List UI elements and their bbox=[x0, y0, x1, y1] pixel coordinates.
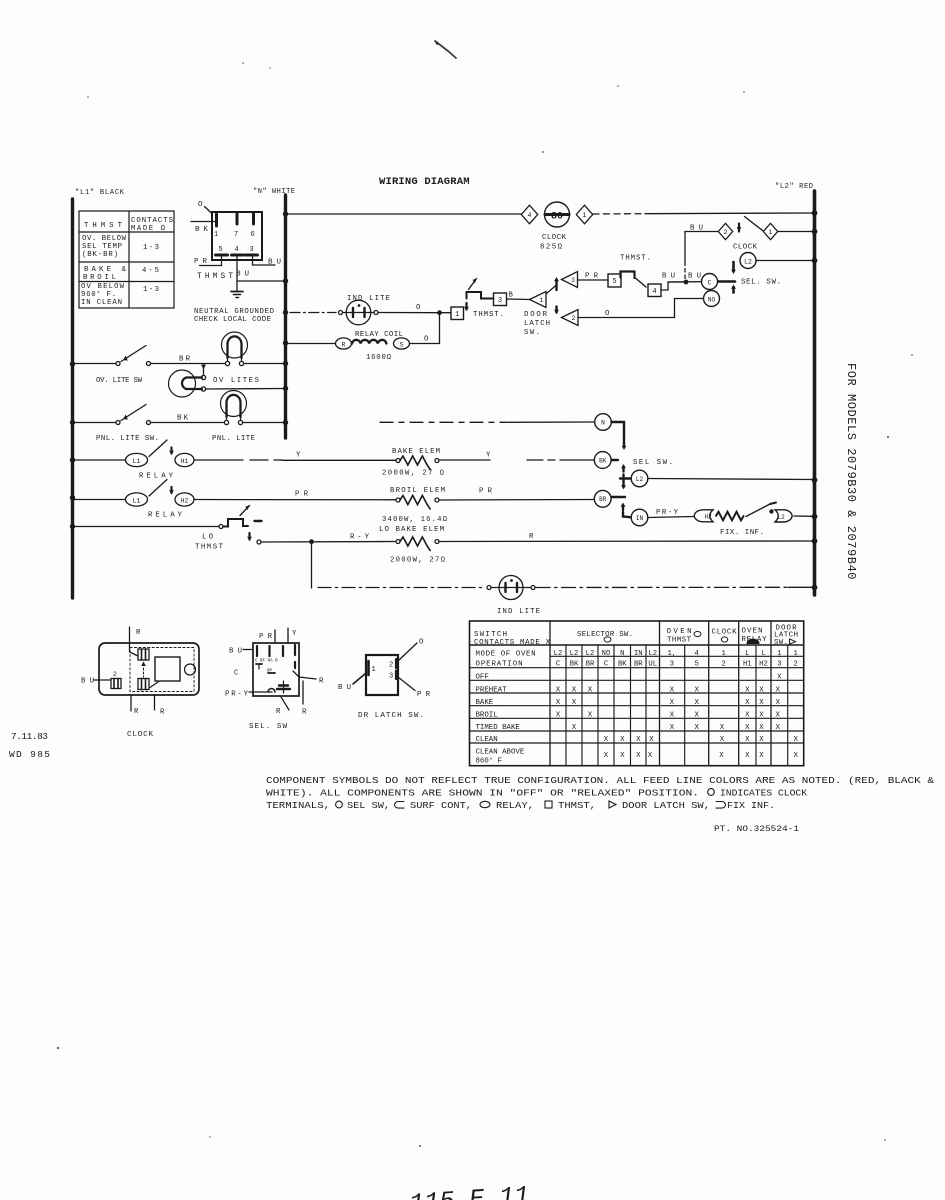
svg-text:BAKE &: BAKE & bbox=[84, 266, 127, 274]
svg-text:BROIL: BROIL bbox=[476, 711, 498, 719]
svg-text:IN: IN bbox=[636, 515, 644, 522]
svg-text:1,: 1, bbox=[667, 650, 676, 658]
svg-text:BAKE: BAKE bbox=[476, 699, 494, 707]
svg-text:X: X bbox=[588, 711, 593, 719]
svg-text:"N" WHITE: "N" WHITE bbox=[253, 188, 295, 196]
svg-text:4: 4 bbox=[695, 650, 699, 658]
svg-text:THMST: THMST bbox=[667, 637, 692, 645]
svg-text:TERMINALS,: TERMINALS, bbox=[266, 801, 330, 811]
svg-text:2: 2 bbox=[389, 662, 393, 670]
wire R-Y to lo bake elem bbox=[261, 541, 396, 544]
svg-text:7.11.83: 7.11.83 bbox=[11, 731, 48, 742]
table THMST contacts made bbox=[79, 211, 174, 308]
svg-text:X: X bbox=[620, 736, 625, 744]
svg-text:L2: L2 bbox=[744, 258, 752, 265]
svg-text:1: 1 bbox=[777, 650, 781, 658]
svg-text:X: X bbox=[775, 711, 780, 719]
svg-text:R-Y: R-Y bbox=[350, 534, 370, 542]
svg-text:CLEAN: CLEAN bbox=[476, 736, 498, 744]
internal contacts bbox=[256, 646, 258, 656]
svg-text:1: 1 bbox=[214, 231, 218, 239]
clock motor box bbox=[155, 657, 180, 681]
svg-text:2: 2 bbox=[724, 229, 728, 236]
svg-text:1-3: 1-3 bbox=[143, 286, 159, 294]
svg-text:PR: PR bbox=[259, 633, 273, 641]
svg-text:3: 3 bbox=[670, 661, 674, 669]
wire clock to L2 bus bbox=[593, 213, 645, 215]
svg-text:BR: BR bbox=[586, 661, 595, 669]
svg-text:3: 3 bbox=[498, 297, 502, 305]
door latch sw component drawing bbox=[366, 655, 398, 695]
svg-text:X: X bbox=[556, 711, 561, 719]
svg-text:2000W, 27 Ω: 2000W, 27 Ω bbox=[382, 470, 445, 478]
svg-text:CLEAN ABOVE: CLEAN ABOVE bbox=[476, 749, 525, 757]
wire junction down to relay coil bbox=[439, 313, 441, 344]
svg-text:X: X bbox=[745, 699, 750, 707]
svg-text:BK: BK bbox=[177, 415, 189, 423]
lamp IND LITE (bottom) bbox=[318, 587, 486, 589]
svg-text:X: X bbox=[588, 686, 593, 694]
svg-text:MODE OF OVEN: MODE OF OVEN bbox=[476, 651, 536, 659]
svg-text:CHECK LOCAL CODE: CHECK LOCAL CODE bbox=[194, 316, 271, 324]
svg-text:4: 4 bbox=[235, 246, 239, 254]
wire to oven lamp bbox=[151, 363, 228, 365]
svg-text:H2: H2 bbox=[705, 514, 713, 521]
svg-text:X: X bbox=[719, 752, 724, 760]
svg-text:IND LITE: IND LITE bbox=[347, 295, 390, 303]
clock terminal diamond 1 bbox=[576, 205, 592, 224]
contact box 1 bbox=[451, 307, 464, 320]
sel sw terminal BK bbox=[594, 452, 611, 469]
svg-text:THMST,: THMST, bbox=[558, 801, 596, 811]
svg-text:825Ω: 825Ω bbox=[540, 244, 563, 252]
wire R bottom right bbox=[302, 681, 304, 704]
clock terminal 3 bbox=[138, 679, 149, 690]
switch PNL LITE SW bbox=[74, 422, 116, 424]
svg-text:X: X bbox=[670, 724, 675, 732]
connector block THMST (pins 1 7 6 5 4 3) bbox=[212, 212, 262, 260]
svg-text:IN CLEAN: IN CLEAN bbox=[81, 299, 122, 307]
svg-text:TIMED BAKE: TIMED BAKE bbox=[476, 724, 521, 732]
svg-text:R: R bbox=[319, 678, 324, 686]
resistor LO BAKE ELEM 2000W 27 ohm bbox=[396, 540, 400, 544]
bus N bbox=[284, 195, 287, 438]
svg-text:O: O bbox=[416, 304, 421, 312]
lamp OV LITE (top) bbox=[222, 332, 248, 358]
svg-text:WIRING DIAGRAM: WIRING DIAGRAM bbox=[379, 176, 470, 188]
svg-text:S: S bbox=[400, 341, 404, 348]
svg-text:PR-Y: PR-Y bbox=[656, 509, 679, 517]
svg-text:3: 3 bbox=[250, 246, 254, 254]
svg-text:SW.: SW. bbox=[774, 639, 788, 647]
svg-text:CLOCK: CLOCK bbox=[127, 731, 153, 739]
svg-text:RELAY COIL: RELAY COIL bbox=[355, 331, 403, 339]
svg-text:960° F.: 960° F. bbox=[81, 290, 116, 299]
svg-text:"L2" RED: "L2" RED bbox=[775, 183, 813, 191]
svg-text:X: X bbox=[793, 736, 798, 744]
pin 7 bbox=[236, 214, 239, 224]
svg-text:R: R bbox=[529, 533, 534, 541]
wire N bus to clock bbox=[287, 213, 522, 215]
svg-text:115 E 11: 115 E 11 bbox=[409, 1181, 531, 1200]
wire R bottom right bbox=[154, 695, 156, 710]
svg-text:THMST: THMST bbox=[195, 544, 224, 552]
svg-text:4-5: 4-5 bbox=[142, 267, 159, 275]
svg-text:LO BAKE ELEM: LO BAKE ELEM bbox=[379, 526, 444, 534]
svg-text:80: 80 bbox=[551, 212, 563, 223]
svg-text:X: X bbox=[572, 686, 577, 694]
wire PR to broil elem bbox=[194, 499, 396, 501]
svg-text:SURF CONT,: SURF CONT, bbox=[410, 801, 472, 811]
sel sw component drawing bbox=[253, 643, 299, 696]
svg-text:L2: L2 bbox=[554, 650, 563, 658]
svg-text:O: O bbox=[419, 639, 424, 647]
door latch contact 2 (triangle) bbox=[555, 307, 557, 313]
svg-text:RELAY: RELAY bbox=[148, 512, 183, 520]
svg-text:CONTACTS: CONTACTS bbox=[131, 217, 174, 225]
svg-text:L1: L1 bbox=[133, 458, 141, 465]
svg-text:PR-Y: PR-Y bbox=[225, 691, 249, 699]
wire junction down to ind lite row bbox=[311, 542, 313, 588]
svg-text:X: X bbox=[745, 711, 750, 719]
svg-text:CONTACTS MADE X: CONTACTS MADE X bbox=[474, 639, 551, 647]
svg-text:OVEN: OVEN bbox=[742, 628, 763, 636]
svg-text:L: L bbox=[745, 650, 749, 658]
contact arrow at box1 bbox=[465, 303, 467, 310]
svg-text:X: X bbox=[720, 736, 725, 744]
resistor BROIL ELEM 3400W 16.4 ohm bbox=[396, 498, 400, 502]
svg-text:B: B bbox=[509, 292, 514, 300]
svg-text:L2: L2 bbox=[636, 476, 644, 483]
thmst contact box 5 bbox=[608, 274, 621, 287]
clock terminal 1 bbox=[138, 649, 149, 660]
svg-text:R: R bbox=[136, 629, 141, 637]
surface contact L2 (fix inf) bbox=[775, 510, 792, 522]
svg-text:RELAY: RELAY bbox=[139, 473, 174, 481]
svg-text:L2: L2 bbox=[648, 650, 657, 658]
junction dots on buses bbox=[70, 361, 75, 366]
svg-text:PR: PR bbox=[417, 691, 431, 699]
svg-text:R: R bbox=[276, 708, 281, 716]
svg-text:O: O bbox=[424, 336, 429, 344]
clock switch blade bbox=[738, 224, 740, 232]
svg-text:X: X bbox=[759, 736, 764, 744]
svg-text:N: N bbox=[601, 419, 605, 426]
wire PR to sel sw BR bbox=[439, 499, 594, 502]
svg-text:O: O bbox=[605, 310, 610, 318]
svg-text:X: X bbox=[745, 752, 750, 760]
svg-text:5: 5 bbox=[695, 661, 699, 669]
wire BU bbox=[353, 673, 366, 684]
svg-text:H2: H2 bbox=[759, 661, 768, 669]
svg-text:WD 985: WD 985 bbox=[9, 749, 50, 760]
wire R diag bottom bbox=[281, 697, 289, 710]
wire L2 to bus bbox=[648, 479, 813, 480]
wire BU from pin 3 bbox=[253, 257, 276, 266]
wire O return to NO bbox=[578, 299, 704, 318]
door latch contact 3 (triangle) bbox=[562, 272, 578, 288]
svg-text:X: X bbox=[793, 752, 798, 760]
svg-text:IN: IN bbox=[634, 650, 643, 658]
wire R to L2 bus bbox=[439, 540, 813, 543]
svg-text:X: X bbox=[636, 752, 641, 760]
sel sw contact NO bbox=[704, 291, 720, 307]
svg-text:NO: NO bbox=[708, 296, 716, 303]
svg-text:BAKE ELEM: BAKE ELEM bbox=[392, 448, 440, 456]
svg-text:R: R bbox=[302, 709, 307, 717]
svg-text:6: 6 bbox=[251, 231, 255, 239]
wire BU left bbox=[94, 679, 111, 681]
sel sw common C bbox=[702, 274, 718, 290]
sel sw blade BR-IN bbox=[612, 496, 626, 498]
svg-text:1: 1 bbox=[540, 297, 544, 304]
svg-text:IND LITE: IND LITE bbox=[497, 608, 540, 616]
svg-text:O: O bbox=[198, 201, 203, 209]
svg-text:L2: L2 bbox=[586, 650, 595, 658]
pin 1 bbox=[215, 214, 218, 226]
svg-text:DOOR: DOOR bbox=[524, 311, 548, 319]
svg-text:BU: BU bbox=[662, 273, 675, 281]
svg-text:1: 1 bbox=[722, 650, 726, 658]
svg-text:L: L bbox=[761, 650, 765, 658]
svg-text:MADE Ω: MADE Ω bbox=[131, 225, 166, 233]
wire O bbox=[398, 643, 417, 661]
svg-text:UL: UL bbox=[648, 661, 657, 669]
svg-text:CLOCK: CLOCK bbox=[733, 244, 758, 252]
wire Y to sel sw BK bbox=[439, 459, 490, 461]
clock terminal diamond 4 bbox=[521, 205, 537, 224]
svg-text:FIX. INF.: FIX. INF. bbox=[720, 529, 764, 537]
sel sw terminal L2 bbox=[631, 470, 648, 487]
svg-text:1: 1 bbox=[794, 650, 798, 658]
svg-text:2: 2 bbox=[794, 661, 798, 669]
svg-text:OVEN: OVEN bbox=[667, 628, 692, 636]
wire to L2 bus bbox=[794, 515, 813, 517]
svg-text:SEL SW.: SEL SW. bbox=[633, 459, 673, 467]
clock terminal 2 bbox=[111, 679, 121, 689]
svg-text:X: X bbox=[670, 686, 675, 694]
svg-text:COMPONENT SYMBOLS DO NOT REFLE: COMPONENT SYMBOLS DO NOT REFLECT TRUE CO… bbox=[266, 776, 935, 786]
sel sw blade BK-L2 bbox=[612, 459, 619, 461]
svg-text:C: C bbox=[234, 670, 239, 678]
svg-text:X: X bbox=[759, 686, 764, 694]
svg-text:1600Ω: 1600Ω bbox=[366, 354, 392, 362]
relay 1 contacts L1-H1 bbox=[74, 459, 126, 461]
svg-text:L1: L1 bbox=[133, 497, 141, 504]
svg-text:C RF RA B: C RF RA B bbox=[255, 660, 278, 664]
svg-text:1: 1 bbox=[583, 212, 587, 219]
svg-text:3: 3 bbox=[777, 661, 781, 669]
relay 2 contacts L1-H2 bbox=[74, 499, 126, 501]
sel sw terminal IN bbox=[631, 509, 648, 526]
svg-text:X: X bbox=[694, 711, 699, 719]
svg-text:R: R bbox=[134, 708, 139, 716]
svg-text:NEUTRAL GROUNDED: NEUTRAL GROUNDED bbox=[194, 308, 275, 316]
svg-text:X: X bbox=[694, 686, 699, 694]
ground bbox=[236, 281, 238, 291]
scratch mark bbox=[435, 41, 456, 58]
wire PR from pin 5 bbox=[200, 257, 222, 266]
svg-text:FIX INF.: FIX INF. bbox=[727, 801, 775, 811]
clock motor 825 ohm bbox=[545, 202, 570, 227]
svg-text:PR: PR bbox=[479, 488, 493, 496]
svg-text:X: X bbox=[777, 674, 782, 682]
svg-text:SEL. SW.: SEL. SW. bbox=[741, 279, 781, 287]
door latch sw contact 1 (triangle) bbox=[530, 292, 547, 308]
svg-text:X: X bbox=[620, 752, 625, 760]
svg-text:BROIL ELEM: BROIL ELEM bbox=[390, 487, 445, 495]
svg-text:3: 3 bbox=[571, 277, 575, 284]
svg-text:BU: BU bbox=[236, 271, 249, 279]
svg-text:OPERATION: OPERATION bbox=[476, 661, 523, 669]
svg-text:7: 7 bbox=[234, 231, 238, 239]
svg-text:LATCH: LATCH bbox=[524, 320, 550, 328]
svg-text:C: C bbox=[604, 661, 609, 669]
svg-text:L2: L2 bbox=[570, 650, 579, 658]
svg-text:FOR MODELS 2079B30 & 2079B40: FOR MODELS 2079B30 & 2079B40 bbox=[844, 363, 858, 580]
svg-text:THMST.: THMST. bbox=[473, 311, 504, 319]
clock component drawing bbox=[99, 643, 199, 695]
bus L1 bbox=[71, 199, 74, 598]
switch OV LITE SW bbox=[74, 363, 116, 365]
svg-text:X: X bbox=[572, 724, 577, 732]
svg-text:X: X bbox=[694, 699, 699, 707]
svg-text:X: X bbox=[694, 724, 699, 732]
svg-text:R: R bbox=[160, 709, 165, 717]
wire BK to pin 1 bbox=[191, 221, 215, 223]
svg-text:(BK-BR): (BK-BR) bbox=[82, 251, 118, 259]
svg-text:OFF: OFF bbox=[476, 674, 489, 682]
bus L2 bbox=[813, 191, 817, 595]
svg-text:BROIL: BROIL bbox=[83, 274, 116, 282]
svg-text:H1: H1 bbox=[743, 661, 752, 669]
wire R top bbox=[130, 627, 139, 656]
thmst bimetal (upper) bbox=[621, 272, 635, 279]
svg-text:BK: BK bbox=[618, 661, 627, 669]
pins top bbox=[274, 630, 276, 643]
thmst bimetal (lower) bbox=[467, 292, 494, 299]
thmst contact box 4 bbox=[648, 284, 661, 297]
wire O lamp to junction bbox=[378, 312, 440, 314]
svg-text:BR: BR bbox=[179, 356, 191, 364]
svg-text:OV LITES: OV LITES bbox=[213, 377, 260, 385]
sel sw terminal BR bbox=[439, 499, 594, 500]
svg-text:X: X bbox=[745, 686, 750, 694]
svg-text:BU: BU bbox=[688, 273, 701, 281]
wire B box3 to triangle1 bbox=[507, 298, 530, 301]
clock contact diamond 2 bbox=[718, 223, 732, 239]
svg-text:5: 5 bbox=[612, 278, 616, 286]
svg-text:2: 2 bbox=[722, 661, 726, 669]
svg-text:PNL. LITE: PNL. LITE bbox=[212, 435, 255, 443]
svg-text:THMST: THMST bbox=[197, 273, 233, 281]
svg-text:BU: BU bbox=[229, 648, 242, 656]
svg-text:X: X bbox=[556, 699, 561, 707]
svg-text:4: 4 bbox=[528, 212, 532, 219]
svg-text:X: X bbox=[556, 686, 561, 694]
svg-text:WHITE). ALL COMPONENTS ARE SH: WHITE). ALL COMPONENTS ARE SHOWN IN "OFF… bbox=[266, 789, 699, 799]
svg-text:C: C bbox=[708, 279, 712, 286]
svg-text:860° F: 860° F bbox=[476, 757, 503, 766]
svg-text:THMST: THMST bbox=[84, 222, 123, 230]
bottom contact stack bbox=[279, 684, 288, 686]
svg-text:"L1" BLACK: "L1" BLACK bbox=[75, 189, 125, 197]
svg-text:OV. BELOW: OV. BELOW bbox=[82, 235, 127, 243]
relay coil R-S 1600 ohm bbox=[287, 343, 336, 345]
svg-text:CLOCK: CLOCK bbox=[712, 629, 738, 637]
wire PR triangle3 to box5 bbox=[578, 279, 609, 281]
svg-text:4: 4 bbox=[652, 288, 656, 296]
svg-text:Y: Y bbox=[292, 630, 297, 638]
svg-text:SWITCH: SWITCH bbox=[474, 631, 507, 639]
svg-text:RELAY,: RELAY, bbox=[496, 801, 534, 811]
switch LO THMST bbox=[74, 526, 219, 528]
switch blade fix inf bbox=[746, 504, 770, 517]
pin 6 bbox=[252, 214, 255, 224]
svg-text:X: X bbox=[649, 736, 654, 744]
svg-text:CLOCK: CLOCK bbox=[542, 234, 567, 242]
sel sw terminal N bbox=[380, 421, 505, 423]
svg-text:X: X bbox=[670, 699, 675, 707]
sel sw terminal L2 bbox=[740, 253, 756, 269]
svg-text:PREHEAT: PREHEAT bbox=[476, 686, 508, 694]
svg-text:X: X bbox=[670, 711, 675, 719]
svg-text:C: C bbox=[556, 661, 561, 669]
wire box4 to BU junction bbox=[661, 282, 686, 290]
sel sw blade bbox=[732, 262, 735, 271]
svg-text:BK: BK bbox=[195, 226, 208, 234]
svg-text:X: X bbox=[745, 724, 750, 732]
svg-text:X: X bbox=[759, 699, 764, 707]
clock contact diamond 1 bbox=[763, 223, 777, 239]
table switch contacts made bbox=[470, 621, 804, 766]
svg-text:LO: LO bbox=[202, 534, 214, 542]
svg-text:BR: BR bbox=[599, 496, 607, 503]
svg-text:SEL. SW: SEL. SW bbox=[249, 723, 287, 731]
svg-text:X: X bbox=[775, 686, 780, 694]
dashed link t1-t3 bbox=[143, 668, 145, 677]
svg-text:SEL SW,: SEL SW, bbox=[347, 801, 390, 811]
wire PR-Y bbox=[249, 691, 272, 693]
svg-text:PR: PR bbox=[194, 258, 207, 266]
resistor BAKE ELEM 2000W 27 ohm bbox=[396, 459, 400, 463]
svg-text:1: 1 bbox=[372, 666, 376, 674]
svg-text:1: 1 bbox=[455, 311, 459, 319]
svg-text:BK: BK bbox=[570, 661, 579, 669]
svg-text:X: X bbox=[572, 699, 577, 707]
svg-text:PNL. LITE SW.: PNL. LITE SW. bbox=[96, 435, 159, 443]
svg-text:R: R bbox=[342, 341, 346, 348]
svg-text:SEL TEMP: SEL TEMP bbox=[82, 243, 122, 251]
wire Y to bake elem bbox=[194, 459, 243, 461]
svg-text:X: X bbox=[759, 711, 764, 719]
svg-text:X: X bbox=[759, 724, 764, 732]
svg-text:OV BELOW: OV BELOW bbox=[81, 283, 125, 291]
svg-text:INDICATES CLOCK: INDICATES CLOCK bbox=[720, 789, 808, 799]
svg-text:5: 5 bbox=[219, 246, 223, 254]
wire R right bbox=[293, 671, 316, 679]
svg-text:1: 1 bbox=[769, 229, 773, 236]
surface contact H2 (fix inf) bbox=[694, 510, 713, 522]
svg-text:PR: PR bbox=[295, 491, 309, 499]
svg-text:Y: Y bbox=[296, 452, 301, 460]
svg-text:RP: RP bbox=[267, 670, 273, 674]
svg-text:PT. NO.325524-1: PT. NO.325524-1 bbox=[714, 825, 799, 834]
lamp PNL LITE bbox=[221, 391, 247, 417]
resistor FIX INF bbox=[716, 512, 744, 521]
svg-text:X: X bbox=[745, 736, 750, 744]
svg-text:BU: BU bbox=[338, 684, 351, 692]
